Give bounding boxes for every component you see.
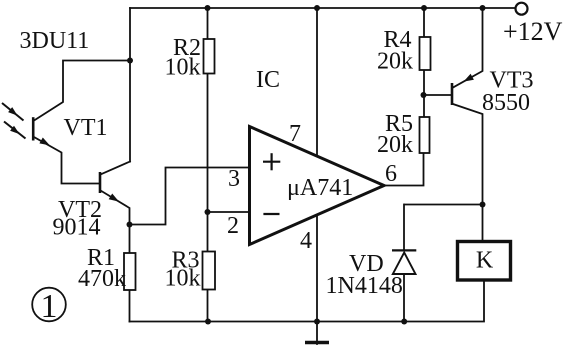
svg-text:K: K <box>476 248 494 274</box>
svg-text:+12V: +12V <box>503 17 563 46</box>
svg-text:VT1: VT1 <box>64 115 108 141</box>
svg-text:10k: 10k <box>165 55 201 81</box>
svg-text:20k: 20k <box>377 132 413 158</box>
svg-text:2: 2 <box>227 213 239 239</box>
svg-text:7: 7 <box>289 121 301 147</box>
svg-text:3DU11: 3DU11 <box>20 28 90 54</box>
svg-text:1: 1 <box>41 288 58 325</box>
svg-text:10k: 10k <box>165 266 201 292</box>
svg-text:20k: 20k <box>377 49 413 75</box>
svg-text:470k: 470k <box>78 266 126 292</box>
svg-text:8550: 8550 <box>482 90 530 116</box>
svg-text:μA741: μA741 <box>287 175 353 201</box>
svg-text:6: 6 <box>385 161 397 187</box>
svg-text:1N4148: 1N4148 <box>326 273 403 299</box>
svg-text:9014: 9014 <box>53 215 101 241</box>
svg-text:IC: IC <box>256 67 280 93</box>
svg-text:3: 3 <box>228 166 240 192</box>
svg-text:4: 4 <box>300 228 312 254</box>
